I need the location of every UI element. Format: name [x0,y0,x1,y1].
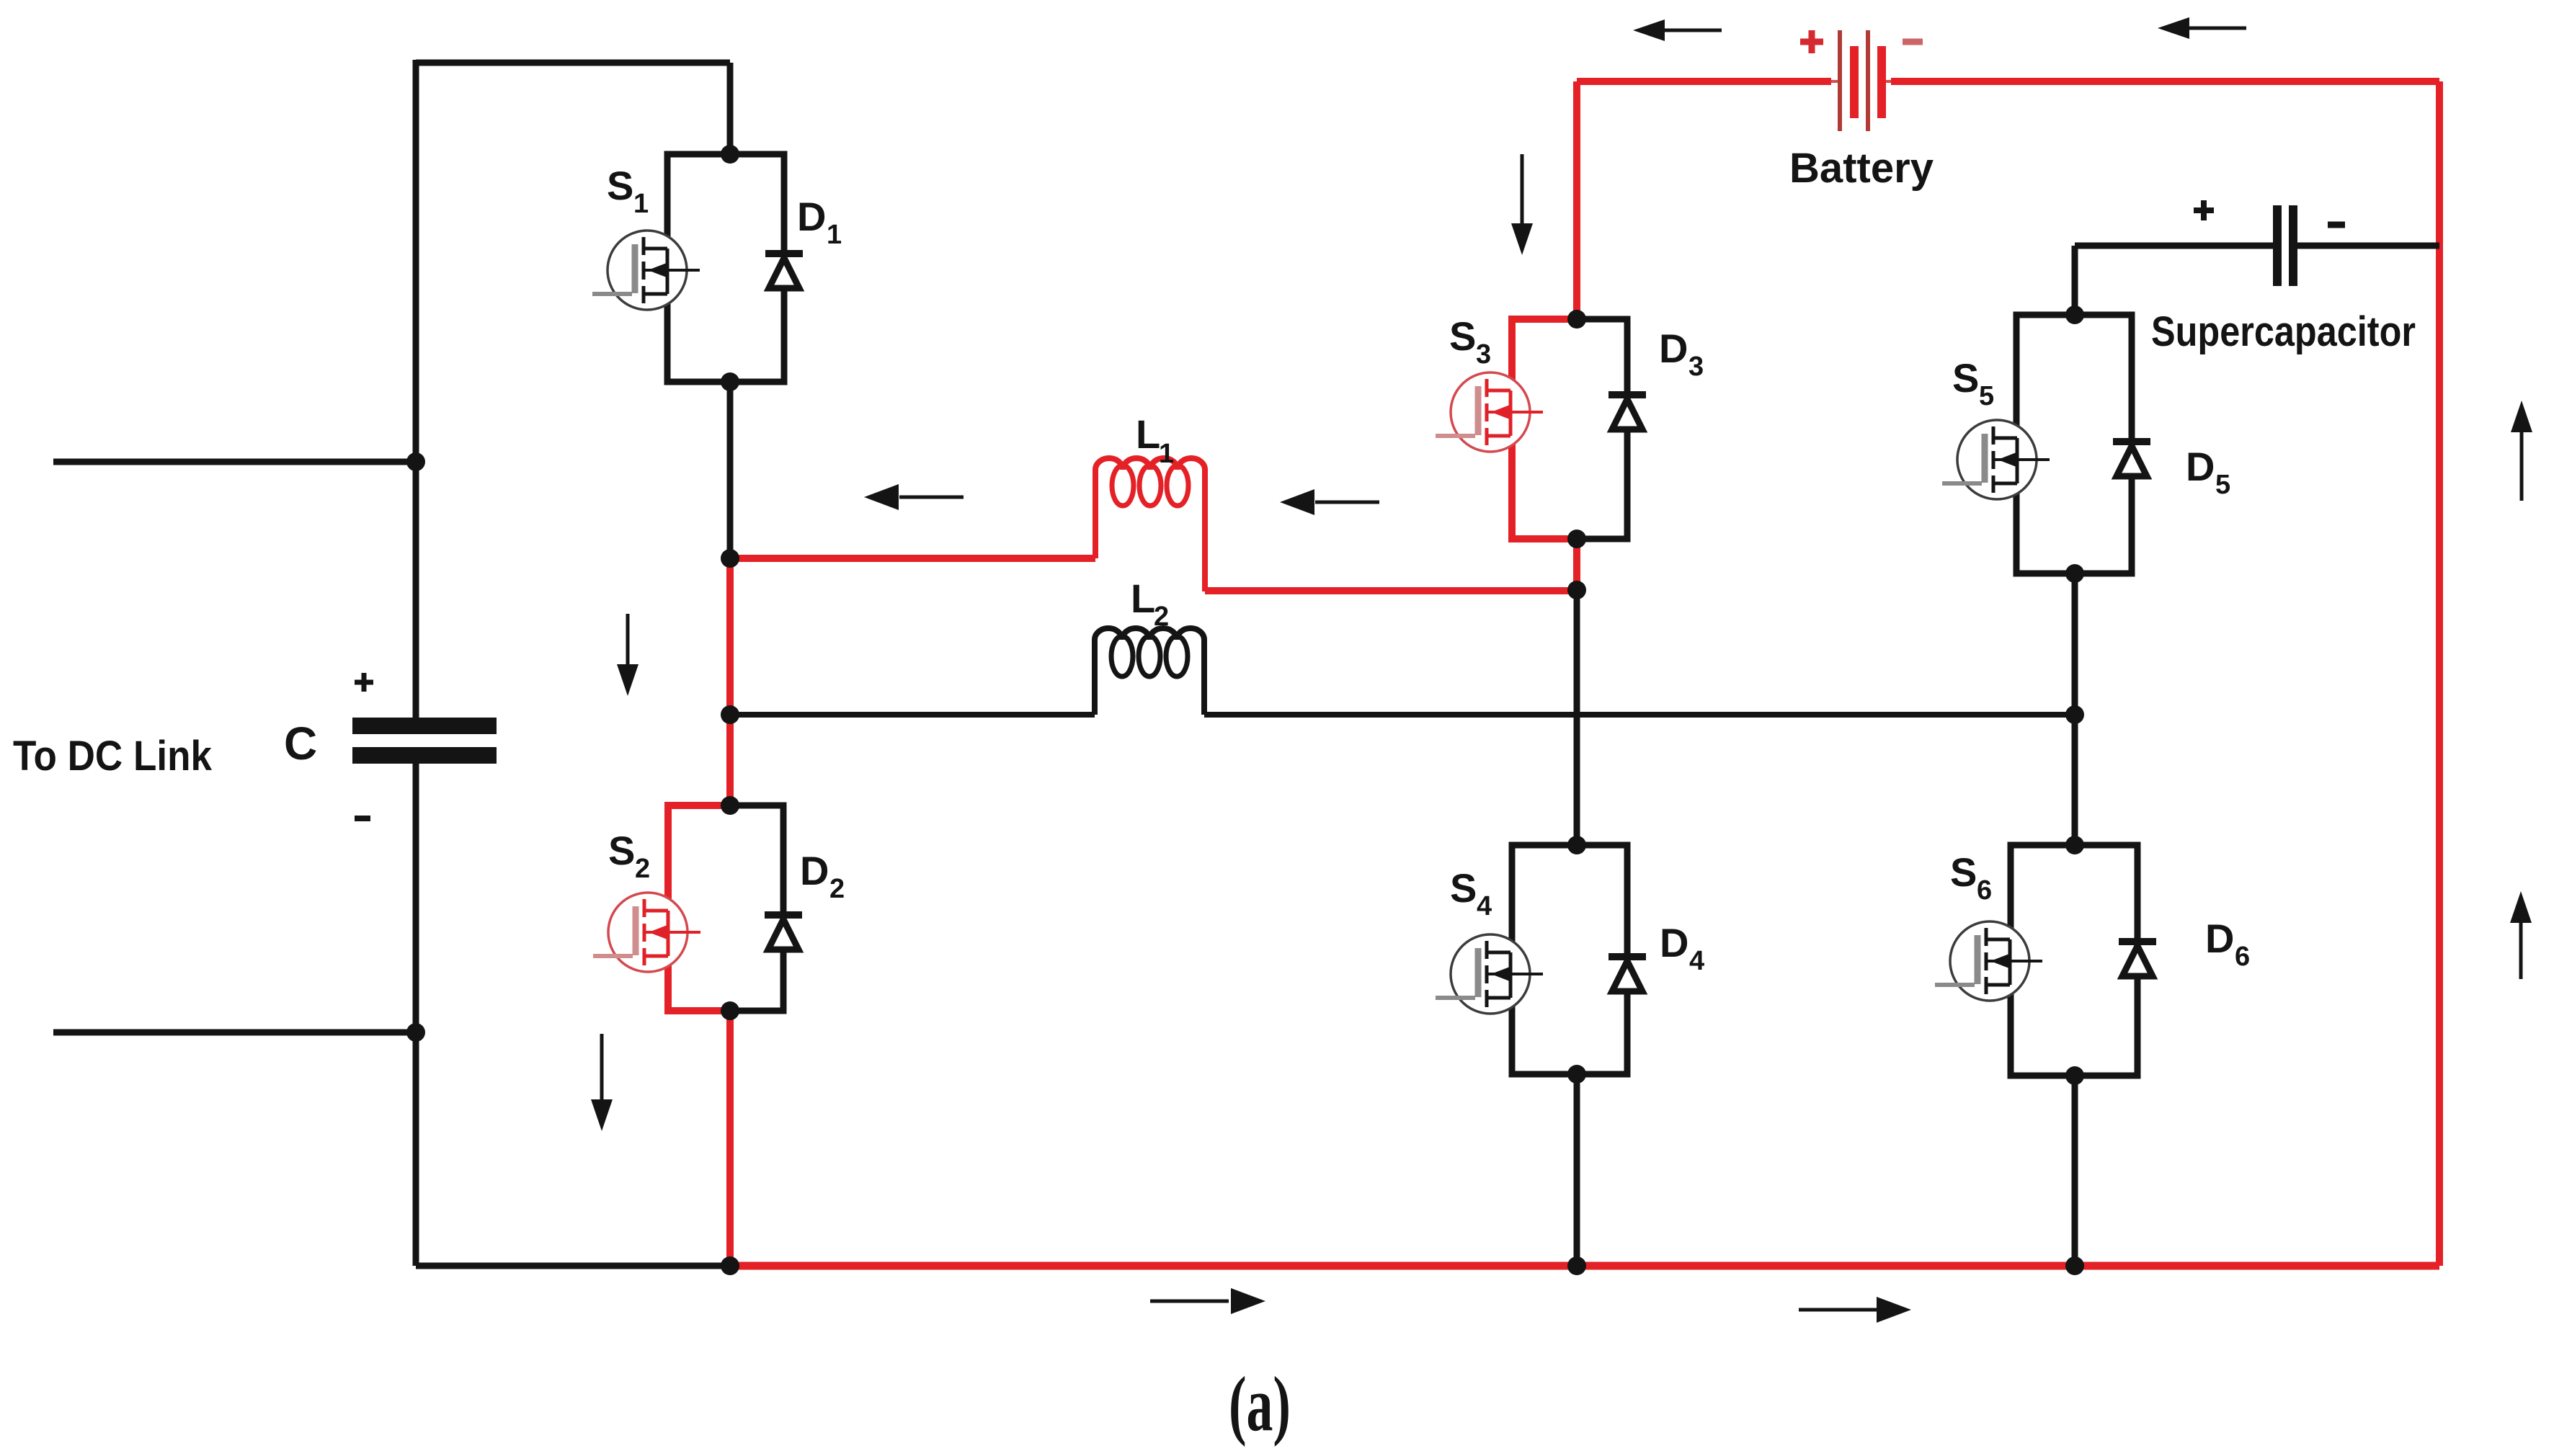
junction S3 bottom [1567,530,1586,548]
transistor S3 [1436,372,1543,452]
junction bus middle [1567,1256,1586,1275]
inductor L1 [1095,458,1205,591]
svg-text:2: 2 [829,874,845,904]
svg-text:2: 2 [635,854,650,884]
wire: red L1 right lead to S3/S4 column [1205,587,1577,594]
junction S2 top [721,796,739,815]
capacitor C [352,718,497,764]
junction S6 bottom [2065,1066,2084,1085]
svg-text:D: D [800,848,829,893]
wire: top-left horizontal from left rail to S1 column [416,60,730,66]
wire: S6 bottom to bus [2072,1076,2078,1266]
wire: red battery top run [1577,78,2439,85]
wire: supercap drop to S5 [2072,246,2078,315]
junction S5 top [2065,305,2084,324]
svg-text:4: 4 [1477,891,1492,921]
svg-text:Battery: Battery [1789,145,1934,192]
junction S4 top [1567,836,1586,854]
junction S6 top [2065,836,2084,854]
arrow: top left-pointing near battery [1633,19,1722,41]
node B L1 to S3/S4 [1567,581,1586,599]
wire: lower DC link stub [53,1030,416,1036]
battery minus sign [1903,39,1923,45]
svg-text:S: S [608,828,635,873]
svg-text:4: 4 [1689,946,1704,976]
svg-text:3: 3 [1476,339,1491,370]
wire: S2 bottom red vertical to bus [726,1011,734,1266]
junction bus left [721,1256,739,1275]
diode D2 [765,915,802,950]
svg-text:L: L [1131,576,1155,621]
wire: L2 line right segment [1204,712,2075,718]
inductor L2 [1095,628,1204,715]
switch cell box S5/D5 [2016,315,2132,573]
arrow: down arrow above C row [617,614,638,696]
svg-text:To DC Link: To DC Link [13,733,213,780]
junction S3 top [1567,310,1586,329]
node A S1-S2 midpoint [721,549,739,568]
wire: bottom bus black segment [416,1263,730,1269]
svg-text:1: 1 [633,189,649,219]
wire: supercapacitor horizontal left [2075,243,2273,249]
junction upper DC stub [406,452,425,471]
wire: red bottom bus [730,1262,2439,1270]
svg-text:S: S [1449,313,1476,359]
diode D6 [2119,942,2156,976]
svg-text:D: D [2186,444,2215,489]
wire: left DC-link rail vertical [413,60,419,1266]
svg-text:(a): (a) [1229,1362,1291,1447]
switch cell box S6/D6 [2011,845,2137,1076]
svg-text:S: S [1450,865,1477,911]
svg-text:D: D [2205,916,2234,961]
svg-text:S: S [607,163,633,208]
wire: red node A to L1 left lead [730,555,1095,562]
svg-text:S: S [1952,355,1979,401]
switch cell box S2/D2 [668,805,783,1011]
svg-text:1: 1 [1159,439,1174,469]
arrow: top right left-pointing [2158,17,2246,39]
svg-text:D: D [1659,326,1688,371]
svg-text:6: 6 [1977,875,1992,906]
supercapacitor minus sign [2328,222,2345,228]
supercapacitor plus sign [2194,200,2214,220]
switch cell box S4/D4 [1512,845,1627,1074]
junction lower DC stub [406,1023,425,1042]
wire: S1 drop from top wire [727,63,734,154]
junction S4 bottom [1567,1065,1586,1084]
arrow: bottom right-pointing right [1799,1297,1911,1323]
transistor S2 [593,893,700,972]
diode D5 [2113,442,2150,476]
svg-text:L: L [1136,411,1160,457]
svg-text:1: 1 [827,220,842,250]
junction L2 right [2065,705,2084,724]
switch cell box S1/D1 [667,154,784,382]
transistor S1 [592,231,700,310]
wire: S1 bottom to node A [727,382,734,558]
battery plus sign [1800,30,1823,53]
transistor S6 [1935,921,2042,1001]
arrow: up arrow right lower [2510,891,2532,979]
red branch of S2 box [668,805,730,1011]
wire: red right border vertical [2436,81,2443,1266]
svg-text:S: S [1950,849,1977,895]
junction S5 bottom [2065,564,2084,583]
junction L2 left [721,705,739,724]
arrow: left arrow right of L1 [1280,489,1379,515]
junction S2 bottom [721,1001,739,1020]
svg-text:6: 6 [2235,942,2250,972]
wire: S5 bottom to S6 top [2072,573,2078,845]
svg-text:5: 5 [2215,470,2230,500]
svg-text:D: D [1660,920,1688,965]
capacitor C plus sign [355,673,373,692]
wire: L2 line left segment [730,712,1095,718]
wire: red drop from battery line to S3 [1573,81,1580,319]
transistor S4 [1436,934,1543,1014]
wire: node B black vertical to S4 [1574,590,1580,845]
svg-text:D: D [797,194,826,239]
svg-text:Supercapacitor: Supercapacitor [2151,308,2416,355]
wire: upper DC link stub [53,459,416,465]
junction bus right [2065,1256,2084,1275]
diode D1 [765,254,803,288]
arrow: down arrow below S2 [591,1034,613,1131]
supercapacitor symbol [2273,205,2297,286]
junction S1 bottom [721,372,739,391]
arrow: bottom right-pointing left [1150,1288,1265,1314]
arrow: left arrow left of L1 [864,484,964,510]
junction S1 top [721,145,739,164]
diode D4 [1609,957,1646,991]
capacitor C minus sign [355,816,370,821]
svg-text:C: C [284,718,317,769]
wire: node A red vertical down to S2 [726,558,734,805]
wire: S4 bottom to bus [1574,1074,1580,1266]
diode D3 [1609,395,1646,429]
svg-text:5: 5 [1979,381,1994,411]
svg-text:3: 3 [1688,352,1704,382]
switch cell box S3/D3 [1512,319,1627,539]
battery symbol [1831,30,1891,131]
wire: supercapacitor horizontal right [2297,243,2439,249]
red branch of S3 box [1512,319,1577,539]
wire: red S3 bottom to node B [1573,539,1580,590]
arrow: up arrow right upper [2511,401,2532,501]
svg-text:2: 2 [1154,602,1169,632]
arrow: down arrow above S3 [1511,154,1533,255]
transistor S5 [1942,420,2050,499]
